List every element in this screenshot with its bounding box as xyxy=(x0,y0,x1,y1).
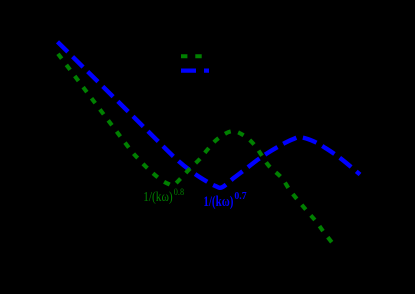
svg-text:1/(kω): 1/(kω) xyxy=(143,190,173,205)
svg-text:0.7: 0.7 xyxy=(234,191,246,202)
svg-text:0.8: 0.8 xyxy=(174,188,185,198)
svg-text:1/(kω): 1/(kω) xyxy=(203,194,233,210)
green dotted curve 1/(komega)^0.8 xyxy=(58,54,336,248)
legend green dotted sample xyxy=(181,54,209,58)
legend blue dashed sample xyxy=(181,68,209,72)
blue dashed curve 1/(komega)^0.7 xyxy=(53,37,360,188)
